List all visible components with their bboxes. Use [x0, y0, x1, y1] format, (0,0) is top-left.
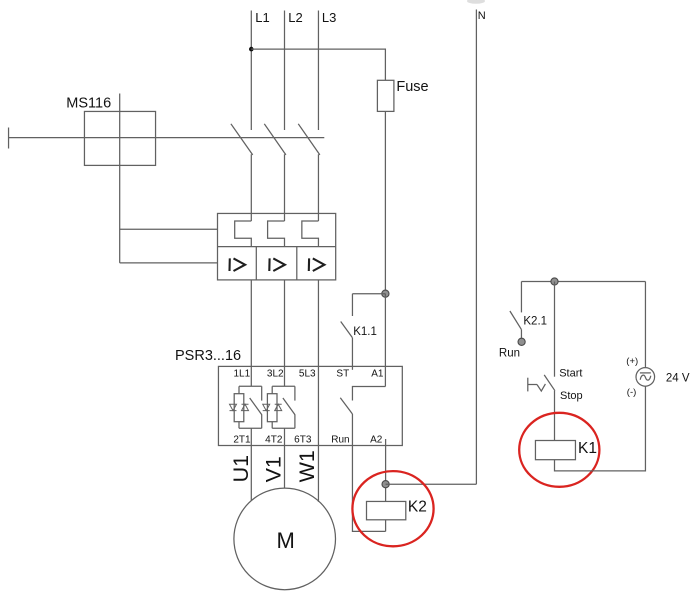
svg-text:K2.1: K2.1 [523, 316, 547, 328]
svg-text:(-): (-) [627, 387, 637, 398]
overload trip symbol I> pole 2 [269, 258, 285, 271]
svg-text:Fuse: Fuse [396, 79, 428, 95]
svg-text:V1: V1 [262, 456, 286, 482]
contact K1.1 upper lead [351, 294, 353, 316]
svg-text:W1: W1 [295, 450, 319, 482]
wire pole1 breaker to overload [250, 154, 252, 221]
overload block divider [218, 246, 336, 248]
wire fuse to node A1 [384, 111, 386, 293]
wire link lower horizontal [120, 262, 218, 264]
breaker pole 3 blade [298, 124, 320, 155]
terminal handle end tick [8, 128, 10, 149]
wire node to K1.1 branch [352, 293, 385, 295]
wire K1.1 to ST [351, 338, 353, 370]
wire coil K1 bottom to source [555, 386, 646, 471]
svg-text:2T1: 2T1 [233, 434, 251, 445]
svg-text:ST: ST [336, 368, 349, 379]
wire link upper horizontal [120, 228, 218, 230]
source G1 symbol [640, 373, 651, 380]
svg-text:5L3: 5L3 [299, 368, 316, 379]
svg-text:L3: L3 [322, 10, 336, 25]
svg-text:N: N [478, 10, 486, 22]
node junction on L1 [249, 47, 254, 52]
highlight circle around K1 [519, 413, 599, 487]
svg-text:U1: U1 [229, 455, 253, 482]
wire junction to start contact [554, 282, 556, 377]
svg-text:1L1: 1L1 [234, 368, 251, 379]
svg-text:4T2: 4T2 [265, 434, 283, 445]
wire coil K2 bottom stub [385, 520, 387, 532]
contact K2.1 blade [510, 311, 522, 330]
node Run output donut [518, 338, 525, 345]
contact Run blade inside PSR [340, 398, 352, 414]
node A2-N junction donut [382, 481, 389, 488]
svg-text:K1: K1 [578, 440, 597, 457]
wire K2.1 to Run node [520, 330, 522, 339]
svg-text:PSR3...16: PSR3...16 [175, 348, 241, 364]
wire handle linkage horizontal [9, 137, 325, 139]
wire N drop to junction [386, 483, 477, 485]
svg-text:Run: Run [331, 434, 349, 445]
wire pole1 overload to PSR [250, 280, 252, 367]
svg-text:K2: K2 [408, 499, 427, 516]
contact K1.1 blade [341, 322, 353, 338]
wire pole3 overload through PSR [317, 280, 319, 446]
overload heater pole 2 [268, 221, 285, 247]
wire W1 to motor [317, 446, 319, 502]
wire pole2 overload to PSR [284, 280, 286, 367]
soft starter PSR body [218, 366, 402, 445]
svg-text:24 V: 24 V [666, 373, 690, 385]
overload trip cell divider 2 [296, 247, 298, 280]
motor M1 circle [234, 488, 336, 590]
highlight circle around K2 [352, 471, 433, 546]
contact K2.1 upper lead [520, 282, 522, 313]
overload trip symbol I> pole 1 [230, 258, 246, 271]
wire L1 feeder [250, 11, 252, 131]
svg-text:L2: L2 [288, 10, 302, 25]
wire source top to bar [644, 282, 646, 368]
svg-text:MS116: MS116 [66, 96, 111, 112]
wire A1 jog to run contact [352, 387, 385, 401]
svg-text:M: M [277, 528, 295, 553]
overload trip cell divider 1 [255, 247, 257, 280]
thyristor pair U2 pole2 bypass module [263, 366, 295, 445]
wire L2 feeder [284, 11, 286, 131]
node control junction donut [551, 278, 558, 285]
wire N feeder [475, 10, 477, 485]
svg-text:Start: Start [559, 368, 582, 380]
wire handle to overload link vertical [119, 94, 121, 263]
node A1 junction donut [382, 290, 389, 297]
wire V1 to motor [284, 446, 286, 489]
artifact smudge top [467, 0, 485, 4]
coil K2 [367, 501, 406, 519]
source G1 24V circle [636, 368, 655, 387]
svg-text:A2: A2 [370, 434, 383, 445]
wire A1 feeder into PSR [384, 294, 386, 387]
breaker pole 2 blade [264, 124, 286, 155]
pushbutton actuator [528, 378, 546, 392]
breaker MS116 handle box [84, 111, 155, 165]
svg-text:A1: A1 [371, 368, 384, 379]
wire control top bar [521, 281, 645, 283]
svg-text:Run: Run [499, 348, 520, 360]
overload relay block body [218, 213, 336, 279]
thyristor pair U1 pole1 bypass module [230, 366, 262, 445]
wire pole2 breaker to overload [284, 154, 286, 221]
overload heater pole 1 [235, 221, 252, 247]
coil K1 [535, 441, 575, 460]
wire L3 feeder [317, 11, 319, 131]
wire U1 to motor [250, 446, 252, 501]
overload trip symbol I> pole 3 [309, 258, 325, 271]
wire pole3 breaker to overload [317, 154, 319, 221]
overload heater pole 3 [302, 221, 319, 247]
svg-text:L1: L1 [255, 10, 269, 25]
breaker pole 1 blade [231, 124, 253, 155]
svg-text:(+): (+) [626, 356, 638, 367]
svg-text:3L2: 3L2 [267, 368, 284, 379]
svg-text:Stop: Stop [560, 390, 583, 402]
svg-text:6T3: 6T3 [294, 434, 312, 445]
wire stop to coil K1 [554, 391, 556, 441]
fuse F1 [377, 80, 394, 111]
wire A2 pin to coil K2 [385, 439, 387, 501]
wire run contact to Run pin and K2 loop [352, 414, 385, 531]
svg-text:K1.1: K1.1 [353, 326, 377, 338]
pushbutton Start/Stop blade [544, 375, 555, 391]
wire L1 to fuse [251, 49, 385, 80]
